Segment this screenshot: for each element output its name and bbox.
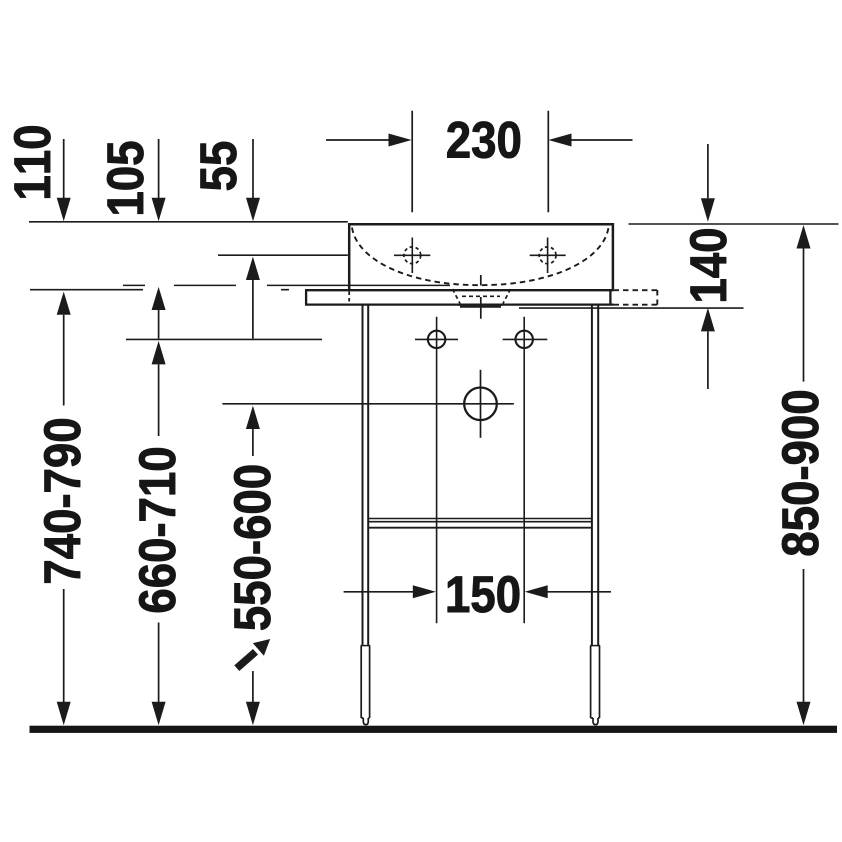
wire 660-710 up arrow [152,341,166,365]
node label 55 [201,142,237,190]
wire mounting hole right crosshair [503,338,548,340]
node bowl dashed curve [352,228,609,286]
wire basin bottom line segments y=285 [123,284,450,286]
wire 660-710 lower shaft and floor arrow [158,623,160,704]
wire 150 dim line right with arrow [547,591,611,593]
node label 140 [690,229,727,300]
wire 850-900 lower shaft and floor arrow [803,569,805,703]
node console plate [305,290,614,304]
node label 230 [447,122,520,159]
wire faucet hole right crosshair [530,238,566,274]
wire 140 down arrow [707,144,709,198]
wire faucet hole left crosshair [394,238,430,274]
node dashed plate extension rectangle [614,290,659,305]
wire 230 dim extension line right [547,111,549,213]
node left leg foot [361,646,369,725]
wire drain center horizontal line [222,403,513,405]
wire dashed basin edge through plate [348,292,350,304]
wire 105 up arrow [152,287,166,310]
wire drain hole vertical crosshair [480,370,482,438]
node faucet hole right dashed circle [539,247,556,264]
node label 105 [107,142,144,214]
node label 850-900 [782,391,819,555]
node cross rail [368,519,593,522]
wire 230 dim line right with arrow [572,139,633,141]
wire 110 up arrow [57,292,71,315]
node label 660-710 [139,448,176,612]
wire 55 up arrow [246,257,260,280]
node right leg [592,306,598,646]
node label 150 [448,576,519,613]
wire 850-900 upper arrow [797,225,811,249]
node mounting hole left [428,331,445,348]
wire mounting hole right vertical extension [523,317,525,624]
wire 140 bottom reference line [519,307,744,309]
node faucet hole left dashed circle [404,247,421,264]
wire mounting hole left vertical extension [436,317,438,624]
wire rim line right extension [629,223,839,225]
node label 740-790 [44,419,81,583]
wire 740-790 lower shaft and floor arrow [63,589,65,703]
wire right leg adjuster joint [590,645,600,647]
wire 230 dim extension line left [411,111,413,213]
node drain hole [464,388,497,421]
wire 550-600 up arrow [246,406,260,429]
wire mounting hole left crosshair [415,338,458,340]
wire 230 dim line left with arrow [326,139,389,141]
node label 110 [14,126,51,197]
node basin outline [349,224,613,289]
wire mounting hole center line [126,338,322,340]
wire 55 down arrow [252,139,254,200]
wire 150 dim line left with arrow [344,591,414,593]
node mounting hole right [516,331,533,348]
node right leg foot [591,646,600,725]
node drain flange [459,304,503,306]
wire plate top level line left [30,289,289,291]
wire 105 down arrow [158,139,160,200]
node drain trap dashed outline [453,289,511,304]
node floor line [30,726,838,733]
node adjustability diagonal arrow [237,652,256,668]
wire drain center line upper [480,275,482,319]
wire rim line left extension [29,221,348,223]
wire 110 down arrow [63,139,65,200]
wire faucet center line left [218,254,348,256]
wire 550-600 lower shaft and floor arrow [252,671,254,703]
node left leg [363,306,369,646]
wire 140 up arrow [701,308,715,332]
wire left leg adjuster joint [361,645,371,647]
node label 550-600 [234,466,271,630]
